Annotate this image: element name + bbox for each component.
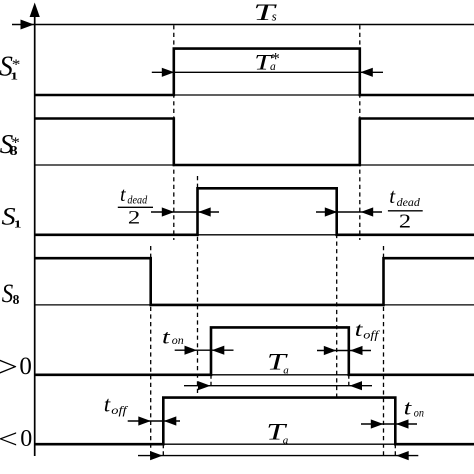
Ts dimension line with left arrowhead at axis	[12, 20, 474, 30]
waveform S8*	[35, 119, 474, 166]
svg-text:0: 0	[19, 353, 32, 380]
vertical time axis	[30, 3, 40, 457]
label S1	[2, 202, 22, 230]
dashed stub below pulse edge x=211	[210, 375, 212, 386]
t_on dimension arrows row 6	[361, 419, 417, 428]
label t_off row 6	[104, 392, 129, 417]
dashed vertical at x=359.8	[359, 25, 361, 240]
row baseline S1*	[35, 94, 474, 96]
label t_dead/2 left	[120, 184, 148, 228]
Ta dimension line row 6	[138, 451, 418, 460]
label Ta row 6	[266, 420, 288, 447]
dashed vertical at x=383.5	[383, 246, 385, 456]
waveform phase current less than zero	[35, 398, 474, 445]
t_dead/2 left dimension arrows	[151, 207, 219, 216]
row baseline greater-than-zero	[35, 374, 474, 376]
svg-text:off: off	[111, 403, 129, 416]
label Ta row 5	[267, 350, 289, 377]
label t_dead/2 right	[389, 184, 420, 232]
svg-text:t: t	[120, 184, 126, 206]
label t_off row 5	[355, 319, 381, 342]
svg-text:a: a	[283, 365, 289, 377]
waveform S1*	[35, 49, 474, 95]
dashed vertical at x=197.5	[197, 176, 199, 396]
svg-text:a: a	[283, 434, 289, 446]
svg-text:dead: dead	[397, 196, 420, 209]
row baseline S8	[35, 304, 474, 306]
dashed vertical at x=173.8	[173, 25, 175, 240]
label Ta* row 1	[254, 49, 280, 74]
t_dead/2 right dimension arrows	[316, 207, 382, 216]
t_off dimension arrows row 5	[317, 346, 371, 355]
row baseline S1	[35, 234, 474, 236]
svg-text:<: <	[0, 423, 18, 454]
svg-text:2: 2	[128, 206, 140, 228]
svg-text:off: off	[363, 328, 381, 342]
svg-text:t: t	[104, 392, 111, 417]
svg-text:*: *	[271, 49, 280, 68]
svg-text:on: on	[172, 333, 184, 347]
row baseline S8*	[35, 164, 474, 166]
label t_on row 6	[404, 396, 425, 420]
Ta* dimension line with inward arrowheads	[152, 68, 383, 77]
label less than 0	[0, 423, 32, 454]
fraction bar of left t_dead/2	[118, 206, 153, 208]
svg-text:dead: dead	[127, 194, 147, 207]
label greater than 0	[0, 351, 32, 384]
t_off dimension arrows row 6	[128, 416, 180, 425]
waveform S1	[35, 188, 474, 235]
svg-text:0: 0	[20, 426, 32, 452]
dashed stub below pulse edge x=348.8	[348, 375, 350, 386]
label t_on row 5	[162, 327, 184, 349]
svg-text:*: *	[12, 57, 21, 73]
label S8	[2, 280, 20, 309]
row baseline less-than-zero	[35, 443, 474, 445]
svg-text:1: 1	[14, 218, 22, 230]
label S8*	[0, 129, 20, 159]
Ta dimension line row 5	[184, 381, 372, 390]
svg-text:s: s	[272, 9, 277, 24]
svg-text:8: 8	[13, 292, 20, 307]
svg-text:S: S	[2, 280, 13, 309]
svg-text:2: 2	[399, 210, 411, 232]
dashed vertical at x=336.7	[336, 188, 338, 396]
waveform phase current greater than zero	[35, 327, 474, 374]
label S1*	[0, 51, 20, 83]
dashed stub below pulse edge x=395.3	[394, 444, 396, 455]
svg-text:*: *	[11, 135, 20, 151]
waveform S8	[35, 258, 474, 305]
dashed stub below pulse edge x=163.3	[162, 444, 164, 455]
label Ts	[253, 0, 277, 25]
fraction bar of right t_dead/2	[388, 210, 423, 212]
svg-text:on: on	[414, 407, 425, 420]
svg-text:>: >	[0, 351, 18, 384]
t_on dimension arrows row 5	[175, 346, 234, 355]
dashed vertical at x=150.7	[150, 246, 152, 456]
